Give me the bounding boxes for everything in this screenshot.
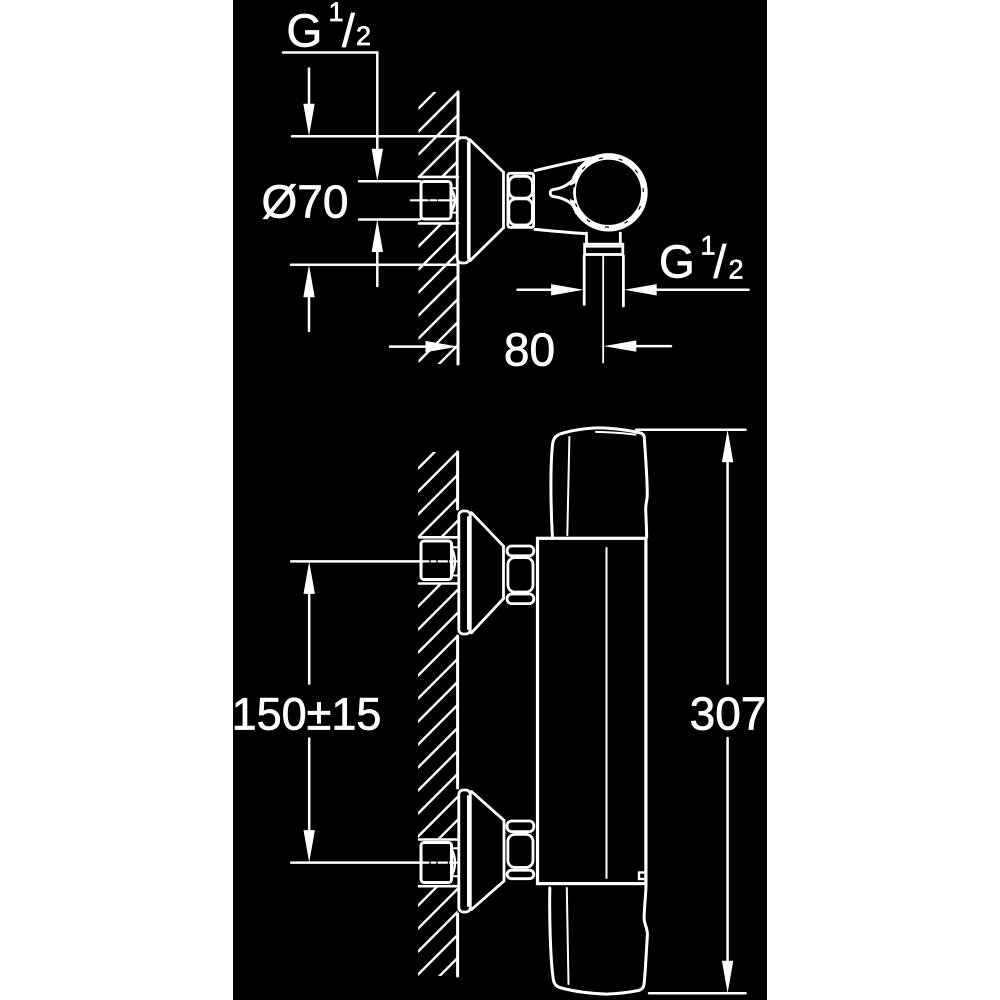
dimension Ø70 extension lines: [292, 135, 458, 138]
lever bell interior (top view): [555, 184, 575, 201]
wall hatching (front view): [418, 429, 458, 998]
lower hex nut: [507, 821, 534, 832]
escutcheon cone (top view): [470, 140, 504, 173]
outlet pipe (top view): [583, 256, 586, 305]
svg-text:G: G: [287, 5, 323, 57]
upper S-union square nut: [421, 541, 452, 580]
wall face line (top view): [457, 92, 460, 138]
Ø70 arrow shafts: [308, 69, 311, 105]
black drawing panel: [233, 0, 767, 1000]
dimension 80 arrow shafts: [390, 345, 427, 348]
hex nut (top view): [508, 173, 534, 227]
svg-text:80: 80: [504, 323, 555, 375]
flange lines upper union: [419, 536, 457, 539]
escutcheon base (top view): [457, 138, 469, 263]
dimension G1/2 outlet arrow shafts: [518, 289, 553, 292]
upper escutcheon cone: [471, 513, 503, 547]
arrow 150 bottom: [722, 430, 733, 463]
svg-text:307: 307: [690, 688, 767, 740]
centerline dash-dot lower union: [420, 861, 457, 863]
dimension 307 extension lines: [636, 429, 746, 432]
svg-text:Ø70: Ø70: [262, 176, 349, 228]
dimension 307 line: [726, 463, 729, 684]
arrow G1/2 outlet left: [624, 284, 657, 295]
dimension 150±15 extension lines: [291, 560, 419, 563]
bottom cap (shower outlet): [550, 886, 648, 995]
handle ring (top view): [573, 156, 645, 228]
S-union pipe stub arc (top view): [452, 190, 455, 212]
wall face line (front view): [456, 452, 459, 509]
G1/2 lower arrow shaft: [376, 251, 379, 286]
wall hatching (top view): [419, 69, 459, 408]
upper escutcheon base: [459, 511, 471, 634]
centerline dash-dot upper union: [420, 560, 457, 562]
dimension 150±15 line: [308, 594, 311, 683]
arrow 307 top: [722, 961, 733, 994]
body inner vertical line: [606, 548, 608, 878]
body rectangle: [538, 538, 646, 883]
lower escutcheon cone: [472, 792, 505, 821]
arrow 80 left: [604, 340, 637, 351]
upper hex nut: [507, 546, 534, 556]
svg-text:2: 2: [356, 21, 371, 51]
arrow 80 right: [551, 284, 584, 295]
top cap (temperature handle): [551, 428, 647, 537]
outlet nut block: [585, 244, 623, 254]
G1/2 thread extension lines: [359, 180, 420, 183]
S-union square nut (top view): [421, 182, 451, 220]
arrow 150 top: [304, 830, 315, 863]
upper union pipe stub arc: [452, 549, 455, 575]
outlet neck (top view): [585, 233, 588, 243]
svg-text:/: /: [342, 5, 355, 57]
small stop button: [639, 873, 646, 880]
lower union pipe stub arc: [452, 850, 455, 876]
lever trumpet arms (top view): [550, 168, 579, 213]
flange lines lower union: [419, 838, 457, 841]
arrow G1/2 bottom: [303, 104, 314, 137]
arrow G1/2 top: [372, 220, 383, 253]
valve body (top view): [535, 157, 596, 170]
arrow Ø70 bottom: [426, 341, 459, 352]
svg-text:G: G: [659, 235, 695, 287]
svg-text:150±15: 150±15: [232, 689, 382, 740]
dimension G 1/2 leader (top-left): [283, 51, 377, 54]
centerline dash-dot (top view union): [411, 199, 458, 201]
arrow Ø70 top: [303, 265, 314, 298]
outlet pipe centerline: [602, 257, 604, 363]
svg-text:/: /: [714, 235, 727, 287]
handle knurl dark dashes: [563, 146, 655, 238]
wall opening flange lines (top view): [419, 176, 458, 179]
lower S-union square nut: [421, 843, 452, 883]
lower escutcheon base: [459, 790, 471, 912]
svg-text:2: 2: [729, 255, 744, 285]
